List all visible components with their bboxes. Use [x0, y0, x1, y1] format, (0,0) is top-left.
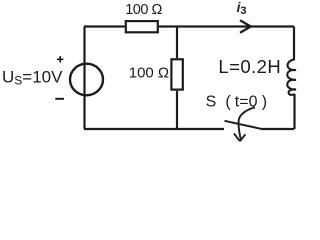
wire top — [84, 25, 294, 27]
wire left — [83, 27, 85, 130]
label S (t=0) — [206, 93, 268, 110]
label i3 — [237, 0, 247, 17]
wire right — [293, 27, 296, 130]
svg-text:100 Ω: 100 Ω — [129, 65, 169, 82]
voltage source US — [70, 64, 103, 96]
svg-text:L=0.2H: L=0.2H — [218, 56, 280, 77]
switch opening arrow — [234, 107, 255, 141]
polarity - — [55, 98, 64, 100]
resistor R2 100 ohm middle — [171, 59, 182, 89]
wire bottom — [84, 128, 294, 130]
label US=10V — [2, 67, 63, 87]
svg-text:100 Ω: 100 Ω — [125, 2, 162, 18]
svg-text:i3: i3 — [237, 0, 247, 17]
value label L=0.2H — [218, 56, 280, 77]
svg-text:S(t=0): S(t=0) — [206, 93, 268, 110]
wire middle branch — [176, 27, 178, 130]
resistor R1 100 ohm top — [126, 21, 158, 32]
value label 100 ohm top — [125, 2, 162, 18]
inductor L — [287, 59, 296, 95]
value label 100 ohm middle — [129, 65, 169, 82]
switch S blade — [225, 121, 262, 129]
polarity + — [57, 56, 63, 62]
current arrow i3 — [240, 20, 251, 33]
svg-text:US=10V: US=10V — [2, 67, 63, 87]
